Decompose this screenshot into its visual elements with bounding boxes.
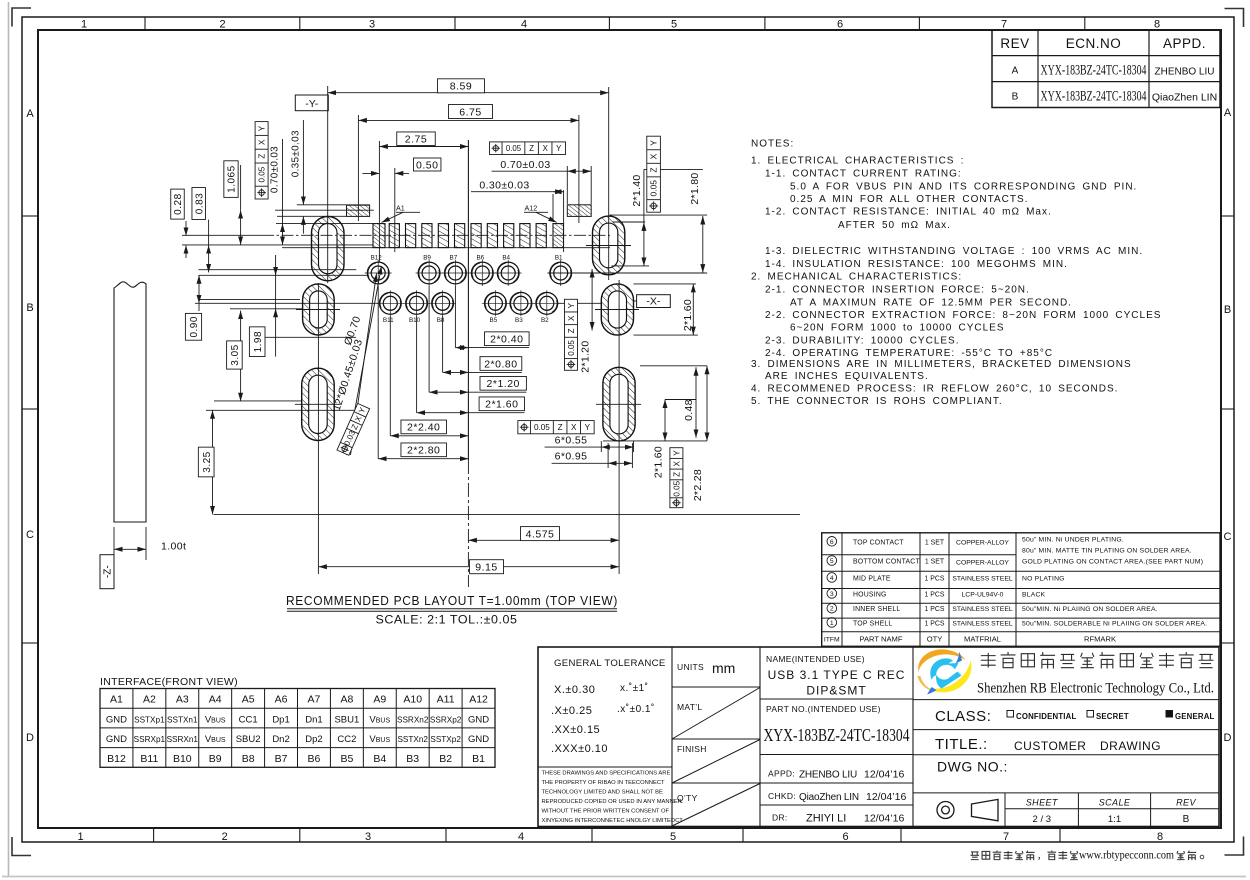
gdt frame right top: [647, 136, 661, 212]
svg-text:LCP-UL94V-0: LCP-UL94V-0: [962, 591, 1004, 598]
svg-text:7: 7: [1003, 831, 1009, 843]
centerline slot L1: [327, 86, 329, 283]
svg-text:B10: B10: [409, 317, 421, 324]
svg-text:DWG NO.:: DWG NO.:: [937, 759, 1008, 775]
svg-text:XYX-183BZ-24TC-18304: XYX-183BZ-24TC-18304: [1041, 89, 1147, 105]
svg-text:1: 1: [77, 831, 83, 843]
svg-text:B11: B11: [383, 317, 394, 324]
svg-text:6: 6: [830, 539, 834, 546]
svg-text:2*0.40: 2*0.40: [490, 333, 523, 345]
svg-text:CHKD:: CHKD:: [768, 791, 796, 801]
svg-text:2*1.60: 2*1.60: [485, 399, 518, 411]
svg-text:B9: B9: [423, 255, 431, 262]
zone letters right: [1224, 107, 1232, 744]
svg-text:SECRET: SECRET: [1096, 712, 1129, 721]
svg-text:Y: Y: [567, 302, 576, 308]
svg-text:GENERAL TOLERANCE: GENERAL TOLERANCE: [554, 658, 666, 669]
pcb layout caption: [286, 594, 618, 627]
svg-text:1.065: 1.065: [227, 165, 238, 193]
svg-text:B7: B7: [275, 753, 288, 765]
svg-text:Q’TY: Q’TY: [677, 793, 698, 803]
svg-text:SSTXn1: SSTXn1: [167, 716, 198, 725]
svg-text:1:1: 1:1: [1108, 814, 1121, 825]
dim 2*2.28: [692, 366, 707, 501]
slot R3: [603, 367, 635, 441]
svg-text:B1: B1: [472, 753, 485, 765]
svg-text:0.70±0.03: 0.70±0.03: [269, 146, 280, 193]
svg-text:B10: B10: [173, 753, 192, 765]
horizontal extension lines: [182, 205, 800, 515]
zone letters left: [26, 108, 34, 744]
pcb side view bar: [114, 282, 146, 522]
svg-text:D: D: [26, 732, 34, 744]
svg-text:2: 2: [222, 831, 228, 843]
svg-text:SCALE: 2:1 TOL.:±0.05: SCALE: 2:1 TOL.:±0.05: [376, 615, 518, 627]
svg-text:5. THE CONNECTOR IS ROHS COMPL: 5. THE CONNECTOR IS ROHS COMPLIANT.: [751, 396, 1003, 407]
svg-text:A12: A12: [469, 694, 488, 706]
svg-text:5: 5: [830, 558, 834, 565]
svg-text:1.98: 1.98: [253, 331, 264, 352]
svg-text:ZHIYI LI: ZHIYI LI: [806, 813, 846, 825]
corner registration mark bottom-left: [12, 837, 31, 856]
svg-text:.X±0.25: .X±0.25: [551, 705, 592, 717]
svg-text:6: 6: [842, 831, 848, 843]
centerline vertical main: [467, 140, 469, 460]
svg-text:Dp2: Dp2: [305, 734, 322, 745]
svg-text:.XX±0.15: .XX±0.15: [551, 724, 600, 736]
datum -X-: [634, 295, 671, 308]
svg-text:2.75: 2.75: [405, 133, 427, 145]
svg-text:SSRXn1: SSRXn1: [167, 735, 199, 744]
svg-text:A3: A3: [176, 694, 189, 706]
svg-text:50u” MIN. Ni UNDER PLATING: 50u” MIN. Ni UNDER PLATING.: [1022, 537, 1124, 544]
centerline slots R2 R3: [618, 280, 620, 574]
svg-text:，: ，: [1037, 851, 1046, 861]
svg-text:MAT’L: MAT’L: [677, 702, 702, 712]
svg-text:A2: A2: [143, 694, 156, 706]
svg-text:12/04’16: 12/04’16: [864, 813, 904, 825]
extension 6.75 left: [357, 115, 359, 221]
svg-text:Z: Z: [672, 472, 681, 477]
class / title / dwg rows: [913, 700, 1219, 793]
svg-text:GND: GND: [468, 715, 489, 726]
svg-text:X: X: [543, 144, 549, 153]
svg-text:0.25 A MIN FOR ALL OTHER CONTA: 0.25 A MIN FOR ALL OTHER CONTACTS.: [790, 194, 1028, 205]
svg-text:0.05: 0.05: [506, 144, 522, 153]
svg-text:SSTXp2: SSTXp2: [430, 735, 461, 744]
zone numbers top: [81, 19, 1160, 31]
svg-text:XINYEXING INTERCONNETEC HNOLGY: XINYEXING INTERCONNETEC HNOLGY LIMITEDCT: [542, 818, 684, 824]
svg-text:CC1: CC1: [239, 715, 258, 726]
r1 right ext: [610, 214, 708, 216]
svg-text:.x˚±0.1˚: .x˚±0.1˚: [617, 703, 655, 715]
svg-text:0.05: 0.05: [534, 423, 550, 432]
svg-text:2-2. CONNECTOR EXTRACTION FORC: 2-2. CONNECTOR EXTRACTION FORCE: 8~20N F…: [765, 310, 1161, 321]
dim 1.00t: [114, 527, 186, 560]
svg-text:0.35±0.03: 0.35±0.03: [290, 130, 301, 177]
svg-text:TECHNOLOGY LIMITED AND SHALL N: TECHNOLOGY LIMITED AND SHALL NOT BE: [542, 790, 663, 796]
dim 1.065: [224, 161, 241, 245]
svg-text:GOLD PLATING ON CONTACT AR: GOLD PLATING ON CONTACT AREA.(SEE PART N…: [1022, 559, 1203, 566]
dim 0.70±0.03 left: [269, 139, 282, 245]
title block outline: [538, 647, 1219, 827]
svg-text:THESE DRAWINGS AND SPECIFICATI: THESE DRAWINGS AND SPECIFICATIONS ARE: [542, 771, 671, 777]
bottom info text: [970, 850, 1203, 862]
svg-text:REPRODUCED COPIED OR USED IN A: REPRODUCED COPIED OR USED IN ANY MANNER: [542, 799, 682, 805]
svg-text:A11: A11: [437, 694, 455, 706]
svg-text:B8: B8: [437, 317, 445, 324]
zone tick marks right: [1221, 216, 1234, 643]
svg-text:8: 8: [1157, 831, 1163, 843]
through hole pads top row: [365, 255, 575, 287]
dim line r2 left: [591, 269, 593, 331]
svg-text:B5: B5: [340, 753, 353, 765]
svg-text:C: C: [26, 529, 34, 541]
slot L1: [312, 217, 345, 281]
dim 2*1.20 right: [579, 341, 591, 373]
svg-text:RFMARK: RFMARK: [1084, 635, 1116, 644]
svg-text:B12: B12: [107, 753, 126, 765]
svg-text:1.00t: 1.00t: [161, 541, 186, 553]
svg-text:2-3. DURABILITY: 10000 CYCLES.: 2-3. DURABILITY: 10000 CYCLES.: [765, 336, 960, 347]
svg-text:CLASS:: CLASS:: [935, 708, 991, 725]
company name chinese: [981, 652, 1214, 669]
svg-text:0.90: 0.90: [189, 316, 200, 337]
svg-text:7: 7: [1001, 19, 1007, 31]
svg-text:1 PCS: 1 PCS: [925, 620, 945, 627]
svg-text:MID PLATE: MID PLATE: [853, 575, 891, 582]
svg-text:GENERAL: GENERAL: [1175, 712, 1215, 721]
corner registration mark top-right: [1225, 9, 1244, 28]
svg-text:B4: B4: [373, 753, 386, 765]
dim 2*1.80: [689, 172, 703, 272]
svg-text:B3: B3: [515, 317, 523, 324]
dim 2*1.60 right mid: [682, 284, 694, 335]
svg-text:NO PLATING: NO PLATING: [1022, 575, 1065, 582]
svg-text:A9: A9: [373, 694, 386, 706]
svg-text:D: D: [1224, 732, 1232, 744]
company logo: [918, 649, 972, 694]
svg-text:3.05: 3.05: [230, 344, 241, 365]
svg-text:GND: GND: [468, 734, 489, 745]
dim 9.15: [318, 560, 619, 574]
svg-text:A6: A6: [275, 694, 288, 706]
svg-text:A12: A12: [525, 204, 538, 213]
svg-text:X.±0.30: X.±0.30: [554, 684, 595, 696]
corner registration mark bottom-right: [1225, 837, 1244, 856]
dim 0.83: [192, 188, 209, 273]
svg-text:1-1. CONTACT CURRENT RATING:: 1-1. CONTACT CURRENT RATING:: [765, 169, 962, 180]
svg-text:Y: Y: [556, 144, 562, 153]
svg-text:INNER SHELL: INNER SHELL: [853, 606, 900, 613]
dim 0.35±0.03 left: [290, 120, 303, 234]
svg-text:6: 6: [837, 19, 843, 31]
extension 0.30 left: [552, 194, 554, 222]
page edge shading bottom: [2, 876, 1246, 878]
svg-text:SBU2: SBU2: [236, 734, 261, 745]
dim 2.75: [379, 132, 468, 147]
svg-text:SCALE: SCALE: [1099, 797, 1131, 807]
svg-text:B6: B6: [308, 753, 321, 765]
svg-text:8.59: 8.59: [450, 81, 472, 93]
svg-text:Z: Z: [649, 168, 659, 173]
svg-text:2*1.40: 2*1.40: [631, 174, 643, 206]
svg-text:2*1.20: 2*1.20: [487, 378, 520, 390]
svg-text:Dn1: Dn1: [305, 715, 322, 726]
svg-text:OTY: OTY: [927, 635, 943, 644]
svg-text:SSRXp1: SSRXp1: [134, 735, 166, 744]
svg-text:X: X: [567, 315, 576, 321]
svg-text:1-4. INSULATION RESISTANCE: 10: 1-4. INSULATION RESISTANCE: 100 MEGOHMS …: [765, 259, 1068, 270]
extension 0.30 right / A12: [563, 190, 565, 252]
svg-text:QiaoZhen LIN: QiaoZhen LIN: [1152, 92, 1217, 104]
svg-text:4. RECOMMENED PROCESS: IR REFL: 4. RECOMMENED PROCESS: IR REFLOW 260°C, …: [751, 384, 1118, 395]
svg-text:8: 8: [1154, 19, 1160, 31]
dim 2*1.40: [611, 170, 702, 266]
svg-text:REV: REV: [1000, 36, 1029, 51]
gdt frame right mid: [565, 299, 578, 370]
svg-text:1: 1: [830, 620, 834, 627]
svg-text:DR:: DR:: [772, 813, 788, 823]
datum -Z-: [100, 555, 114, 589]
svg-text:1. ELECTRICAL CHARACTERISTICS: 1. ELECTRICAL CHARACTERISTICS :: [751, 156, 964, 167]
svg-text:2*0.80: 2*0.80: [484, 358, 517, 370]
dimension chain 2*0.40 .. 2*2.80: [378, 286, 529, 459]
svg-text:XYX-183BZ-24TC-18304: XYX-183BZ-24TC-18304: [1041, 63, 1147, 79]
svg-text:B1: B1: [555, 255, 563, 262]
svg-text:C: C: [1224, 531, 1232, 543]
svg-text:INTERFACE(FRONT VIEW): INTERFACE(FRONT VIEW): [100, 676, 238, 688]
svg-text:CC2: CC2: [337, 734, 356, 745]
solder tab bar left: [347, 205, 370, 216]
dim 6.75: [358, 105, 579, 121]
dim 4.575: [468, 527, 619, 541]
svg-text:STAINLESS STEEL: STAINLESS STEEL: [952, 575, 1013, 582]
svg-text:3: 3: [830, 591, 834, 598]
svg-text:TOP CONTACT: TOP CONTACT: [853, 539, 904, 546]
svg-text:B5: B5: [490, 317, 498, 324]
svg-text:A5: A5: [242, 694, 255, 706]
svg-text:A1: A1: [110, 694, 123, 706]
svg-text:Y: Y: [649, 140, 659, 146]
svg-text:GND: GND: [106, 715, 127, 726]
svg-text:B: B: [26, 302, 33, 314]
gdt frame right bottom: [670, 448, 683, 508]
svg-text:A10: A10: [403, 694, 422, 706]
datum -Y-: [295, 95, 328, 111]
svg-text:SHEET: SHEET: [1026, 797, 1059, 807]
extension pad A1 / 2.75 left: [378, 141, 380, 262]
zone numbers bottom: [77, 831, 1163, 843]
svg-text:ITFM: ITFM: [824, 637, 840, 644]
svg-text:B4: B4: [502, 255, 510, 262]
through hole pads bottom row: [377, 290, 561, 324]
svg-text:WITHOUT THE PRIOR WRITTEN CON: WITHOUT THE PRIOR WRITTEN CONSENT OF: [542, 809, 670, 815]
svg-text:4: 4: [518, 831, 524, 843]
svg-text:1 PCS: 1 PCS: [925, 606, 945, 613]
gdt frame bottom: [518, 421, 594, 434]
svg-text:www.rbtypecconn.com: www.rbtypecconn.com: [1079, 850, 1174, 862]
dim 6*0.95: [552, 443, 633, 468]
svg-text:A: A: [26, 108, 34, 120]
svg-text:4: 4: [830, 575, 834, 582]
svg-text:-Z-: -Z-: [103, 565, 114, 578]
svg-text:TOP SHELL: TOP SHELL: [853, 620, 892, 627]
svg-text:0.50: 0.50: [416, 159, 438, 171]
svg-text:2*2.80: 2*2.80: [407, 445, 440, 457]
svg-text:ZHENBO LIU: ZHENBO LIU: [799, 770, 857, 781]
svg-text:B9: B9: [209, 753, 222, 765]
svg-text:5: 5: [670, 831, 676, 843]
svg-text:0.05: 0.05: [672, 480, 681, 496]
svg-text:CONFIDENTIAL: CONFIDENTIAL: [1016, 712, 1076, 721]
svg-text:12/04’16: 12/04’16: [864, 769, 904, 781]
gdt frame top: [490, 142, 566, 155]
svg-text:1 SET: 1 SET: [925, 559, 945, 566]
leader 12xO0.45: [331, 266, 382, 455]
svg-text:XYX-183BZ-24TC-18304: XYX-183BZ-24TC-18304: [764, 725, 910, 745]
svg-text:APPD.: APPD.: [1163, 36, 1206, 51]
leader A12: [524, 204, 557, 223]
parts list table: [822, 533, 1220, 647]
name / part-no / sign-off cells: [760, 654, 913, 825]
dim 3.25: [198, 410, 214, 514]
slot L2: [303, 284, 335, 335]
svg-text:ECN.NO: ECN.NO: [1066, 36, 1122, 51]
svg-text:A4: A4: [209, 694, 222, 706]
dim 0.48: [683, 367, 696, 438]
sheet / scale / rev strip: [937, 793, 1219, 827]
svg-text:1 PCS: 1 PCS: [925, 575, 945, 582]
svg-text:B3: B3: [406, 753, 419, 765]
svg-text:0.28: 0.28: [173, 193, 184, 214]
slot R1: [593, 216, 625, 275]
smt pads A1-A12: [373, 224, 564, 248]
svg-text:6.75: 6.75: [459, 106, 481, 118]
svg-text:6~20N FORM 1000 to 10000 CYCLE: 6~20N FORM 1000 to 10000 CYCLES: [790, 323, 1004, 334]
svg-text:Dp1: Dp1: [272, 715, 289, 726]
svg-text:-X-: -X-: [646, 296, 661, 308]
svg-text:ZHENBO LIU: ZHENBO LIU: [1154, 67, 1214, 78]
svg-text:A8: A8: [340, 694, 353, 706]
svg-text:SSTXn2: SSTXn2: [397, 735, 428, 744]
svg-text:3.25: 3.25: [202, 451, 213, 472]
dim 0.70±0.03 top: [492, 159, 592, 204]
svg-text:X: X: [649, 153, 659, 159]
dim 3.05: [227, 311, 243, 402]
svg-text:B7: B7: [450, 255, 458, 262]
corner registration mark top-left: [12, 8, 31, 27]
svg-text:0.05: 0.05: [567, 340, 576, 356]
svg-text:3: 3: [369, 19, 375, 31]
zone tick marks bottom: [154, 828, 1060, 842]
svg-text:Y: Y: [672, 450, 681, 456]
svg-text:A1: A1: [396, 204, 405, 213]
svg-text:X: X: [258, 139, 267, 145]
svg-text:4: 4: [521, 19, 527, 31]
svg-text:SSRXn2: SSRXn2: [397, 716, 429, 725]
svg-text:Shenzhen RB Electronic Technol: Shenzhen RB Electronic Technology Co., L…: [977, 681, 1214, 697]
svg-text:UNITS: UNITS: [677, 662, 704, 672]
svg-text:2*1.20: 2*1.20: [579, 341, 591, 373]
svg-text:QiaoZhen LIN: QiaoZhen LIN: [799, 792, 859, 803]
svg-text:5.0 A FOR VBUS PIN AND ITS COR: 5.0 A FOR VBUS PIN AND ITS CORRESPONDING…: [790, 182, 1137, 193]
svg-text:50u”MIN. Ni PLAIING ON SOLDE: 50u”MIN. Ni PLAIING ON SOLDER AREA.: [1022, 606, 1158, 613]
svg-text:0.30±0.03: 0.30±0.03: [479, 179, 529, 191]
svg-text:2*1.60: 2*1.60: [682, 299, 694, 331]
proprietary small print: [542, 771, 684, 825]
svg-text:PART NO.(INTENDED USE): PART NO.(INTENDED USE): [766, 704, 881, 714]
svg-text:2-4. OPERATING TEMPERATURE: -5: 2-4. OPERATING TEMPERATURE: -55°C TO +85…: [765, 348, 1053, 359]
slot L3: [302, 368, 335, 440]
svg-text:ARE INCHES EQUIVALENTS.: ARE INCHES EQUIVALENTS.: [765, 371, 929, 382]
svg-text:Z: Z: [567, 328, 576, 333]
centerline slot R1: [608, 87, 610, 280]
svg-text:2*2.40: 2*2.40: [407, 422, 440, 434]
page edge shading left: [8, 2, 10, 876]
centerline slots L2 L3: [317, 283, 319, 574]
svg-text:RECOMMENDED PCB LAYOUT T=1.: RECOMMENDED PCB LAYOUT T=1.00mm (TOP VIE…: [286, 594, 618, 608]
svg-text:B11: B11: [140, 753, 158, 765]
svg-text:DRAWING: DRAWING: [1100, 739, 1161, 753]
svg-text:0.70±0.03: 0.70±0.03: [500, 159, 550, 171]
leader A1: [382, 204, 421, 223]
svg-text:Y: Y: [585, 423, 591, 432]
svg-text:DIP&SMT: DIP&SMT: [806, 684, 866, 698]
svg-text:3. DIMENSIONS ARE IN MILLIMETE: 3. DIMENSIONS ARE IN MILLIMETERS, BRACKE…: [751, 359, 1132, 370]
svg-text:2*1.80: 2*1.80: [689, 172, 701, 204]
svg-text:-Y-: -Y-: [305, 98, 319, 110]
zone tick marks left: [22, 216, 38, 643]
svg-text:x.˚±1˚: x.˚±1˚: [620, 682, 649, 694]
svg-text:A: A: [1224, 107, 1232, 119]
svg-text:5: 5: [671, 19, 677, 31]
svg-text:CUSTOMER: CUSTOMER: [1014, 739, 1086, 753]
svg-text:X: X: [672, 460, 681, 466]
svg-text:2*2.28: 2*2.28: [692, 469, 704, 501]
svg-text:COPPER-ALLOY: COPPER-ALLOY: [956, 560, 1009, 567]
svg-text:B6: B6: [476, 255, 484, 262]
dim 6*0.55: [545, 434, 634, 452]
pad row centerline: [182, 234, 262, 236]
svg-text:1-2. CONTACT RESISTANCE: INITI: 1-2. CONTACT RESISTANCE: INITIAL 40 mΩ M…: [765, 207, 1052, 218]
svg-text:X: X: [571, 423, 577, 432]
svg-text:1-3. DIELECTRIC WITHSTANDING V: 1-3. DIELECTRIC WITHSTANDING VOLTAGE : 1…: [765, 246, 1143, 257]
zone tick marks top: [145, 17, 1085, 30]
svg-text:2*1.60: 2*1.60: [653, 446, 665, 478]
svg-text:9.15: 9.15: [475, 561, 497, 573]
interface table: [100, 689, 495, 768]
svg-text:0.05: 0.05: [649, 180, 659, 197]
dim 0.50: [362, 158, 441, 173]
svg-text:STAINLESS STEEL: STAINLESS STEEL: [952, 620, 1013, 627]
svg-text:2: 2: [830, 606, 834, 613]
svg-text:NAME(INTENDED USE): NAME(INTENDED USE): [766, 654, 865, 664]
svg-text:B2: B2: [541, 317, 549, 324]
svg-text:TITLE.:: TITLE.:: [935, 736, 988, 753]
svg-text:Z: Z: [258, 154, 267, 159]
general tolerance cell: [538, 658, 672, 767]
svg-text:STAINLESS STEEL: STAINLESS STEEL: [952, 606, 1013, 613]
svg-text:SSRXp2: SSRXp2: [430, 716, 462, 725]
svg-text:6*0.95: 6*0.95: [555, 450, 588, 462]
svg-text:.XXX±0.10: .XXX±0.10: [551, 743, 608, 755]
svg-text:B: B: [1012, 92, 1019, 103]
svg-text:1 PCS: 1 PCS: [925, 591, 945, 598]
svg-text:80u” MIN. MATTE TIN PLATIN: 80u” MIN. MATTE TIN PLATING ON SOLDER AR…: [1022, 548, 1192, 555]
svg-text:AT A MAXIMUN RATE OF 12.5MM PE: AT A MAXIMUN RATE OF 12.5MM PER SECOND.: [790, 298, 1072, 309]
svg-text:mm: mm: [712, 660, 735, 676]
